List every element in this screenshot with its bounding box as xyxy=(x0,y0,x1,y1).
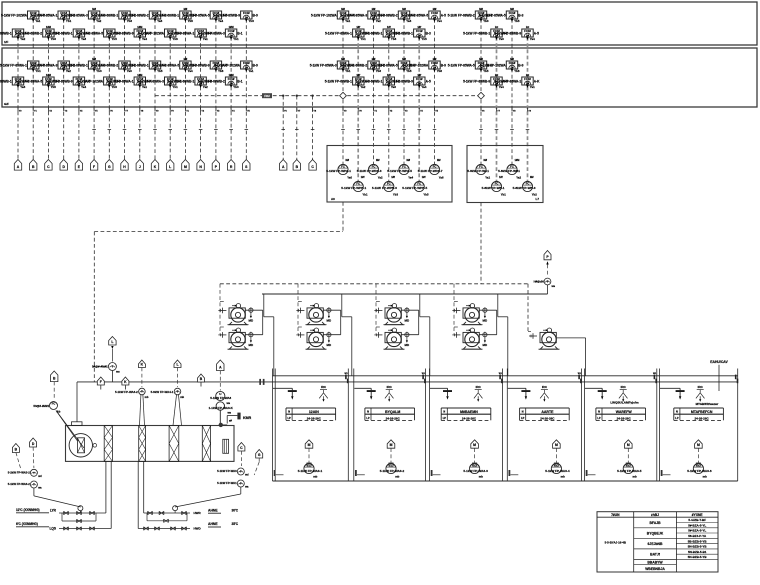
svg-text:5-1kW FP-68WB-1: 5-1kW FP-68WB-1 xyxy=(45,32,72,36)
svg-text:Ya4: Ya4 xyxy=(421,85,426,89)
svg-text:A-5: A-5 xyxy=(441,14,446,18)
zone 4 internals xyxy=(508,385,570,478)
tag balloon B2 xyxy=(30,160,37,171)
svg-text:Ya2: Ya2 xyxy=(516,176,521,180)
svg-text:G/F: G/F xyxy=(4,102,9,106)
fan L7-2 xyxy=(498,159,521,180)
FCU unit 1F-C4 xyxy=(355,25,400,41)
left stack balloons xyxy=(12,444,19,453)
svg-text:1#M: 1#M xyxy=(229,73,234,77)
svg-text:5-1kW FP-68WB-1: 5-1kW FP-68WB-1 xyxy=(61,64,88,68)
svg-text:5-1kW FP-85WA-1: 5-1kW FP-85WA-1 xyxy=(325,32,352,36)
svg-text:FC: FC xyxy=(697,463,701,467)
svg-text:Ya1: Ya1 xyxy=(203,37,208,41)
svg-text:mb: mb xyxy=(395,475,399,479)
svg-text:5-1kW FP-68WB-1: 5-1kW FP-68WB-1 xyxy=(355,80,382,84)
zone 3 internals xyxy=(430,385,491,478)
svg-text:5-1kW FP-85WA-5: 5-1kW FP-85WA-5 xyxy=(479,14,506,18)
svg-text:5-1kW FP-68WB-2: 5-1kW FP-68WB-2 xyxy=(15,32,42,36)
svg-text:1/F: 1/F xyxy=(4,40,9,44)
svg-text:N: N xyxy=(367,411,369,414)
svg-text:#YXNE: #YXNE xyxy=(692,513,704,517)
svg-text:B-9: B-9 xyxy=(253,64,258,68)
FCU unit 1F-B1 xyxy=(0,29,30,41)
svg-text:FC: FC xyxy=(341,164,345,168)
svg-text:5-1kW FP-85WA-1: 5-1kW FP-85WA-1 xyxy=(107,80,134,84)
FCU unit 1F-C3 xyxy=(340,7,385,23)
svg-text:5-1kW FP-WA3-1: 5-1kW FP-WA3-1 xyxy=(298,469,323,473)
svg-text:Yb6: Yb6 xyxy=(249,19,255,23)
svg-text:5-1kW FP-WPA-3: 5-1kW FP-WPA-3 xyxy=(357,169,382,173)
svg-text:AHNE: AHNE xyxy=(208,508,218,512)
KMR box xyxy=(227,415,237,417)
svg-text:LP: LP xyxy=(597,417,601,420)
svg-text:5-1kW FP-WA3-3: 5-1kW FP-WA3-3 xyxy=(463,469,488,473)
tag balloon S16 xyxy=(243,160,250,171)
svg-text:Yb6: Yb6 xyxy=(514,69,520,73)
svg-text:M#: M# xyxy=(341,7,345,11)
svg-text:Yb1: Yb1 xyxy=(345,69,351,73)
svg-text:IRC: IRC xyxy=(621,385,627,389)
svg-text:5-8kW FP-WB-3: 5-8kW FP-WB-3 xyxy=(513,186,536,190)
svg-text:5-1kW FP-85WA-5: 5-1kW FP-85WA-5 xyxy=(152,64,179,68)
svg-text:5-1kW FP-WA1: 5-1kW FP-WA1 xyxy=(217,481,237,485)
svg-text:5-4JZB-T-BF: 5-4JZB-T-BF xyxy=(688,518,706,522)
svg-text:5-1kW FP-102WA: 5-1kW FP-102WA xyxy=(311,14,338,18)
svg-text:IRC: IRC xyxy=(542,385,548,389)
svg-text:M#: M# xyxy=(184,7,188,11)
svg-text:5-1kW FP-85WA-1: 5-1kW FP-85WA-1 xyxy=(167,32,194,36)
svg-text:Yb2: Yb2 xyxy=(532,193,538,197)
FCU unit GF-C5 xyxy=(371,57,416,73)
sensor s6 balloon on line xyxy=(198,374,205,382)
FCU unit 1F-C2 xyxy=(325,25,370,41)
svg-text:AHNE: AHNE xyxy=(208,522,218,526)
FCU unit GF-A3 xyxy=(61,57,106,73)
FCU unit GF-A1 xyxy=(0,61,46,73)
fan A0-2 xyxy=(341,176,368,197)
FCU unit 1F-D4 xyxy=(494,25,539,41)
svg-text:5-6kW FP-WA4-1: 5-6kW FP-WA4-1 xyxy=(151,390,174,394)
svg-text:5-1kW FP-85WB-9: 5-1kW FP-85WB-9 xyxy=(106,32,133,36)
svg-text:Ya2: Ya2 xyxy=(378,176,383,180)
svg-text:Ya2: Ya2 xyxy=(360,85,365,89)
svg-text:A-5: A-5 xyxy=(426,80,431,84)
svg-text:N: N xyxy=(288,411,290,414)
svg-text:WBEBNBJA: WBEBNBJA xyxy=(645,567,665,571)
svg-text:Ya1: Ya1 xyxy=(249,69,254,73)
riser T-marks xyxy=(92,129,96,131)
svg-text:int: int xyxy=(526,25,529,29)
svg-text:5-5-BYAJ-16-4B: 5-5-BYAJ-16-4B xyxy=(605,541,626,545)
FCU unit GF-C4 xyxy=(355,73,400,89)
svg-text:Ya1: Ya1 xyxy=(142,85,147,89)
svg-text:Yb5: Yb5 xyxy=(423,193,429,197)
svg-text:int: int xyxy=(495,25,498,29)
FCU unit 1F-D2 xyxy=(463,25,508,41)
svg-text:LYR: LYR xyxy=(50,509,57,513)
svg-text:Ya4: Ya4 xyxy=(530,37,535,41)
svg-text:M#: M# xyxy=(92,7,96,11)
svg-text:IRC: IRC xyxy=(387,385,393,389)
fan A0-7 xyxy=(418,159,444,180)
svg-text:FC: FC xyxy=(387,181,391,185)
svg-text:5-1kW FP-85WB-9: 5-1kW FP-85WB-9 xyxy=(213,14,240,18)
svg-text:N: N xyxy=(443,411,445,414)
FCU unit GF-C2 xyxy=(325,73,370,89)
svg-text:12AIN: 12AIN xyxy=(309,410,319,414)
svg-text:5-1kW FP-68WB-1: 5-1kW FP-68WB-1 xyxy=(91,14,118,18)
svg-text:Ya3: Ya3 xyxy=(127,69,132,73)
svg-text:MTGBWR/wazwr: MTGBWR/wazwr xyxy=(696,402,720,406)
FCU unit 1F-B8 xyxy=(198,25,243,41)
svg-text:M#: M# xyxy=(346,159,350,162)
sensor s2 balloon on line xyxy=(97,377,104,385)
svg-text:1#f: 1#f xyxy=(356,73,360,77)
FCU unit 1F-A6 xyxy=(152,7,197,23)
svg-text:IRC: IRC xyxy=(698,385,704,389)
fan L7-3 xyxy=(482,176,507,197)
svg-text:5-1kW FP-102WA: 5-1kW FP-102WA xyxy=(480,64,507,68)
FCU unit GF-B3 xyxy=(45,77,90,89)
svg-text:A-5: A-5 xyxy=(534,32,539,36)
wire dashed risers xyxy=(17,37,19,160)
svg-text:5-1kW FP-WA3-2: 5-1kW FP-WA3-2 xyxy=(115,390,138,394)
svg-text:LP: LP xyxy=(521,417,525,420)
svg-text:IRC: IRC xyxy=(321,385,327,389)
svg-text:M: M xyxy=(308,443,311,447)
svg-text:5-1kW FP-WPB-3: 5-1kW FP-WPB-3 xyxy=(372,186,397,190)
svg-text:1#M: 1#M xyxy=(137,73,142,77)
svg-text:BYQBEJK: BYQBEJK xyxy=(647,531,664,535)
svg-text:5-2kW FP-WA3-2: 5-2kW FP-WA3-2 xyxy=(8,471,31,475)
svg-text:35'C: 35'C xyxy=(232,522,239,526)
svg-text:Yb1: Yb1 xyxy=(66,19,72,23)
zone borders xyxy=(272,369,274,482)
fan A0-6 xyxy=(402,176,429,197)
svg-text:Ya4: Ya4 xyxy=(437,19,442,23)
svg-text:5-1kW FP-68WB-2: 5-1kW FP-68WB-2 xyxy=(371,14,398,18)
svg-text:G: G xyxy=(258,453,261,457)
svg-text:MTAFBEFCN: MTAFBEFCN xyxy=(691,410,713,414)
svg-text:wa: wa xyxy=(227,402,231,405)
svg-text:M#: M# xyxy=(376,159,380,162)
FCU unit 1F-A2 xyxy=(30,11,75,23)
svg-text:FC: FC xyxy=(627,463,631,467)
svg-text:5-1kW FP-68WB-1: 5-1kW FP-68WB-1 xyxy=(355,32,382,36)
FCU unit 1F-A3 xyxy=(61,7,106,23)
tag balloon E5 xyxy=(75,160,82,171)
svg-text:Yb3: Yb3 xyxy=(233,85,239,89)
svg-text:Ya6: Ya6 xyxy=(439,176,444,180)
svg-text:1#f: 1#f xyxy=(422,176,426,179)
left stack sensors xyxy=(30,469,37,476)
junction diamond 2 xyxy=(478,92,485,99)
svg-text:5-1kW FP-85WA-5: 5-1kW FP-85WA-5 xyxy=(15,80,42,84)
svg-text:1#f: 1#f xyxy=(387,73,391,77)
svg-text:M#: M# xyxy=(479,57,483,61)
svg-text:Ya2: Ya2 xyxy=(96,19,101,23)
svg-text:Ya4: Ya4 xyxy=(188,69,193,73)
svg-text:5-1kW FP-85WA-3: 5-1kW FP-85WA-3 xyxy=(340,14,367,18)
svg-text:5-1kW FP-102WA: 5-1kW FP-102WA xyxy=(214,64,241,68)
fan L7-4 xyxy=(513,176,538,197)
svg-text:FC: FC xyxy=(555,463,559,467)
svg-text:Yb5: Yb5 xyxy=(51,85,57,89)
tag balloon F6 xyxy=(90,160,97,171)
svg-text:Ya3: Ya3 xyxy=(81,37,86,41)
svg-text:M#: M# xyxy=(184,57,188,61)
svg-text:wa: wa xyxy=(245,486,249,489)
AHU coil 2 xyxy=(202,426,210,462)
svg-text:L: L xyxy=(176,363,178,367)
header sensor xyxy=(544,251,551,260)
svg-text:Yb5: Yb5 xyxy=(483,69,489,73)
fan A0-1 xyxy=(326,159,352,180)
AHU filter 2 xyxy=(139,426,146,462)
svg-text:L: L xyxy=(169,165,171,169)
svg-text:Ya2: Ya2 xyxy=(376,19,381,23)
svg-text:5-1kW FP-85WA-5: 5-1kW FP-85WA-5 xyxy=(448,64,475,68)
svg-text:Ya2: Ya2 xyxy=(66,69,71,73)
FCU unit GF-B7 xyxy=(167,77,212,89)
svg-text:5-1kW FP-85WB-9: 5-1kW FP-85WB-9 xyxy=(45,80,72,84)
svg-text:24-26-26C: 24-26-26C xyxy=(617,416,632,420)
fan A0-5 xyxy=(387,159,413,180)
svg-text:IRC: IRC xyxy=(476,385,482,389)
svg-text:Yb3: Yb3 xyxy=(393,193,399,197)
AHU riser xyxy=(76,382,78,422)
svg-text:M#: M# xyxy=(407,159,411,162)
svg-text:mb: mb xyxy=(561,475,565,479)
tag balloon N13 xyxy=(197,160,204,171)
floor band G/F xyxy=(2,48,757,107)
svg-text:M#: M# xyxy=(437,159,441,162)
svg-text:Ya4: Ya4 xyxy=(142,37,147,41)
svg-text:B-3: B-3 xyxy=(518,14,523,18)
svg-text:5-1kW FP-68WB-1: 5-1kW FP-68WB-1 xyxy=(386,32,413,36)
svg-text:mb: mb xyxy=(180,395,184,399)
AHU coil 1 xyxy=(169,426,179,462)
svg-text:M#: M# xyxy=(341,57,345,61)
svg-text:1#M: 1#M xyxy=(137,25,142,29)
svg-text:int: int xyxy=(526,73,529,77)
pump pair 4 xyxy=(452,284,507,376)
AHU filter 1 xyxy=(104,426,112,462)
svg-text:24-26-26C: 24-26-26C xyxy=(540,416,555,420)
svg-text:Yb3: Yb3 xyxy=(376,69,382,73)
svg-text:BATJf: BATJf xyxy=(650,553,661,557)
FCU unit GF-A7 xyxy=(182,61,227,73)
plant box A0 xyxy=(327,146,452,203)
svg-text:1#f: 1#f xyxy=(356,25,360,29)
fan A0-4 xyxy=(372,176,399,197)
svg-text:1#M: 1#M xyxy=(46,73,51,77)
svg-text:5-1kW FP-102WA: 5-1kW FP-102WA xyxy=(77,80,104,84)
manifold M1 xyxy=(16,506,111,531)
svg-text:int: int xyxy=(495,73,498,77)
svg-text:wa: wa xyxy=(552,285,556,288)
svg-text:M: M xyxy=(555,443,558,447)
svg-text:Yb3: Yb3 xyxy=(51,37,57,41)
svg-text:FC: FC xyxy=(307,463,311,467)
svg-text:5-1kW FP-68WB-1: 5-1kW FP-68WB-1 xyxy=(122,64,149,68)
svg-text:F: F xyxy=(100,380,102,384)
FCU unit 1F-C7 xyxy=(401,7,446,23)
svg-text:5-1kW FP-68WB-2: 5-1kW FP-68WB-2 xyxy=(448,14,475,18)
svg-text:58-BZ4-P-YA: 58-BZ4-P-YA xyxy=(688,534,707,538)
floor band 1/F xyxy=(2,2,757,45)
zone 5 internals xyxy=(585,385,646,478)
svg-text:5-1kW FP-85WA-3: 5-1kW FP-85WA-3 xyxy=(310,64,337,68)
svg-text:Ya1: Ya1 xyxy=(485,176,490,180)
svg-text:Yb6: Yb6 xyxy=(437,69,443,73)
FCU unit GF-D4 xyxy=(494,73,540,89)
svg-text:5-1kW FP-102WA: 5-1kW FP-102WA xyxy=(138,32,165,36)
zone 1 internals xyxy=(273,385,336,478)
svg-text:Yb3: Yb3 xyxy=(391,37,397,41)
svg-text:5-1kW FP-102WA: 5-1kW FP-102WA xyxy=(402,64,429,68)
svg-text:1#f: 1#f xyxy=(417,73,421,77)
svg-text:A0: A0 xyxy=(331,197,335,201)
svg-text:LWQBULAMFyjcfm: LWQBULAMFyjcfm xyxy=(610,401,638,405)
FCU unit 1F-C6 xyxy=(386,25,431,41)
tag balloon H8 xyxy=(121,160,128,171)
FCU unit 1F-C5 xyxy=(371,7,416,23)
svg-text:M#: M# xyxy=(402,57,406,61)
zone 2 internals xyxy=(354,385,414,478)
FCU unit GF-A2 xyxy=(30,61,75,73)
tag balloon A1 xyxy=(14,160,21,171)
svg-text:5-1kW FP-68WB-2: 5-1kW FP-68WB-2 xyxy=(198,80,225,84)
sensor s3 balloon on line xyxy=(122,377,129,385)
svg-text:Ya2: Ya2 xyxy=(203,85,208,89)
pump pair 1 xyxy=(218,284,273,376)
AHU fan xyxy=(69,434,92,457)
FCU unit GF-D2 xyxy=(463,73,508,89)
svg-text:6'C (XXNMHG): 6'C (XXNMHG) xyxy=(16,522,38,526)
svg-text:M#: M# xyxy=(484,159,488,162)
svg-text:FC: FC xyxy=(495,181,499,185)
svg-text:M#: M# xyxy=(510,57,514,61)
FCU unit GF-B4 xyxy=(77,77,121,89)
manifold M2 xyxy=(138,506,239,531)
svg-text:Ya4: Ya4 xyxy=(408,176,413,180)
tag balloon L11 xyxy=(167,160,174,171)
svg-text:24-26-26C: 24-26-26C xyxy=(386,416,401,420)
svg-text:G: G xyxy=(108,165,111,169)
svg-text:B-9: B-9 xyxy=(518,64,523,68)
svg-text:1#f: 1#f xyxy=(417,25,421,29)
FCU unit 1F-A8 xyxy=(213,11,258,23)
FCU unit GF-D3 xyxy=(480,57,524,73)
wire bus from L7 to pumps xyxy=(480,202,482,283)
svg-text:L7: L7 xyxy=(535,197,539,201)
svg-text:5-8kW FP-WA1: 5-8kW FP-WA1 xyxy=(467,169,489,173)
svg-text:Yb1: Yb1 xyxy=(360,37,366,41)
svg-text:5-1kW FP-85WA-5: 5-1kW FP-85WA-5 xyxy=(76,32,103,36)
svg-text:1-1kW FP-WA3-K: 1-1kW FP-WA3-K xyxy=(209,406,234,410)
svg-text:N: N xyxy=(522,411,524,414)
svg-text:M#: M# xyxy=(510,7,514,11)
svg-text:FC: FC xyxy=(479,164,483,168)
svg-text:5-1kW FP-85WA-5: 5-1kW FP-85WA-5 xyxy=(183,14,210,18)
svg-text:FC: FC xyxy=(526,181,530,185)
svg-text:Yb1: Yb1 xyxy=(362,193,368,197)
svg-text:5B-BZB-5-YB: 5B-BZB-5-YB xyxy=(688,539,708,543)
svg-text:Yb1: Yb1 xyxy=(172,85,178,89)
svg-text:5-1kW FP-WPB-5: 5-1kW FP-WPB-5 xyxy=(402,186,427,190)
svg-text:Yb5: Yb5 xyxy=(112,37,118,41)
svg-text:B-1: B-1 xyxy=(237,32,242,36)
svg-text:1#M: 1#M xyxy=(229,25,234,29)
svg-text:Ya4: Ya4 xyxy=(218,19,223,23)
svg-text:BBABYW: BBABYW xyxy=(647,560,663,564)
svg-text:FC: FC xyxy=(510,164,514,168)
svg-text:M#: M# xyxy=(372,7,376,11)
svg-text:Yb5: Yb5 xyxy=(157,69,163,73)
FCU unit 1F-B2 xyxy=(15,25,60,41)
svg-text:A-K: A-K xyxy=(534,80,540,84)
svg-text:5-1kW FP-85WB-9: 5-1kW FP-85WB-9 xyxy=(494,32,521,36)
svg-text:Yb3: Yb3 xyxy=(483,19,489,23)
svg-text:5-1kW FP-68WB-1: 5-1kW FP-68WB-1 xyxy=(0,32,12,36)
tag balloon G7 xyxy=(106,160,113,171)
svg-text:5-8kW FP-WB1: 5-8kW FP-WB1 xyxy=(498,169,520,173)
svg-text:HWR: HWR xyxy=(194,511,202,515)
svg-text:5-1kW FP-68WB-1: 5-1kW FP-68WB-1 xyxy=(463,32,490,36)
svg-text:Yb3: Yb3 xyxy=(96,69,102,73)
svg-text:HWD: HWD xyxy=(194,527,202,531)
svg-text:5#@#-#M#1: 5#@#-#M#1 xyxy=(92,365,108,369)
zone border ticks xyxy=(345,375,347,380)
svg-text:Yb1: Yb1 xyxy=(35,69,41,73)
plant box L7 xyxy=(467,146,543,203)
FCU unit 1F-D3 xyxy=(479,7,524,23)
svg-text:LP: LP xyxy=(675,417,679,420)
svg-text:M: M xyxy=(627,443,630,447)
svg-text:N: N xyxy=(676,411,678,414)
svg-text:Ya3: Ya3 xyxy=(499,37,504,41)
svg-text:mb: mb xyxy=(479,475,483,479)
FCU unit GF-A6 xyxy=(152,57,197,73)
svg-text:5N-BZB-5-YB: 5N-BZB-5-YB xyxy=(688,545,708,549)
svg-text:12'C (XXNMHG): 12'C (XXNMHG) xyxy=(16,508,40,512)
svg-text:5-1kW FP-68WB-1: 5-1kW FP-68WB-1 xyxy=(152,14,179,18)
svg-text:M#BAEMN: M#BAEMN xyxy=(460,410,478,414)
sensor s4 duct xyxy=(138,360,145,368)
svg-text:Ya4: Ya4 xyxy=(499,85,504,89)
svg-text:WAREFW: WAREFW xyxy=(616,410,633,414)
svg-text:J: J xyxy=(139,165,141,169)
svg-text:24-26-26C: 24-26-26C xyxy=(695,416,710,420)
svg-text:M#: M# xyxy=(372,57,376,61)
svg-text:BYQALM: BYQALM xyxy=(385,410,400,414)
svg-text:1#f: 1#f xyxy=(387,25,391,29)
tag balloon K10 xyxy=(151,160,158,171)
svg-text:Ya1: Ya1 xyxy=(345,19,350,23)
sensor s1 xyxy=(51,371,58,382)
svg-text:KMR: KMR xyxy=(243,416,252,420)
svg-text:LQS: LQS xyxy=(49,527,56,531)
svg-text:wa: wa xyxy=(228,412,232,415)
svg-text:Yb6: Yb6 xyxy=(218,69,224,73)
svg-text:F: F xyxy=(93,165,95,169)
FCU unit 1F-B6 xyxy=(138,29,182,41)
FCU unit 1F-D1 xyxy=(448,7,493,23)
svg-text:BFAJB: BFAJB xyxy=(649,521,661,525)
svg-text:5-1kW FP-85WA-3: 5-1kW FP-85WA-3 xyxy=(198,32,225,36)
